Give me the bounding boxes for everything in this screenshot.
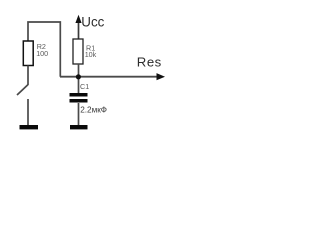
capacitor C1 top plate bbox=[70, 93, 88, 97]
wire switch to ground bbox=[27, 99, 29, 126]
svg-text:100: 100 bbox=[36, 49, 48, 58]
resistor R2 bbox=[23, 41, 33, 66]
arrowhead Res bbox=[157, 73, 166, 80]
svg-text:C1: C1 bbox=[80, 82, 89, 91]
svg-text:2.2мкФ: 2.2мкФ bbox=[80, 106, 107, 115]
power arrow Ucc bbox=[78, 21, 80, 40]
switch blade (open) bbox=[17, 85, 28, 95]
svg-text:Ucc: Ucc bbox=[81, 15, 104, 30]
wire main horizontal Res line bbox=[60, 76, 158, 78]
svg-text:10k: 10k bbox=[85, 50, 97, 59]
capacitor C1 bottom plate bbox=[70, 99, 88, 103]
junction node dot bbox=[76, 74, 81, 79]
resistor R1 bbox=[73, 39, 83, 64]
wire capacitor to ground bbox=[78, 103, 80, 126]
wire top bracket from R2 top to vertical feed bbox=[28, 22, 60, 77]
svg-text:Res: Res bbox=[137, 55, 162, 70]
ground bar left bbox=[20, 125, 39, 129]
ground bar right bbox=[70, 125, 88, 129]
wire R2 bottom to switch contact bbox=[27, 66, 29, 86]
wire R1 bottom to junction bbox=[78, 64, 80, 93]
